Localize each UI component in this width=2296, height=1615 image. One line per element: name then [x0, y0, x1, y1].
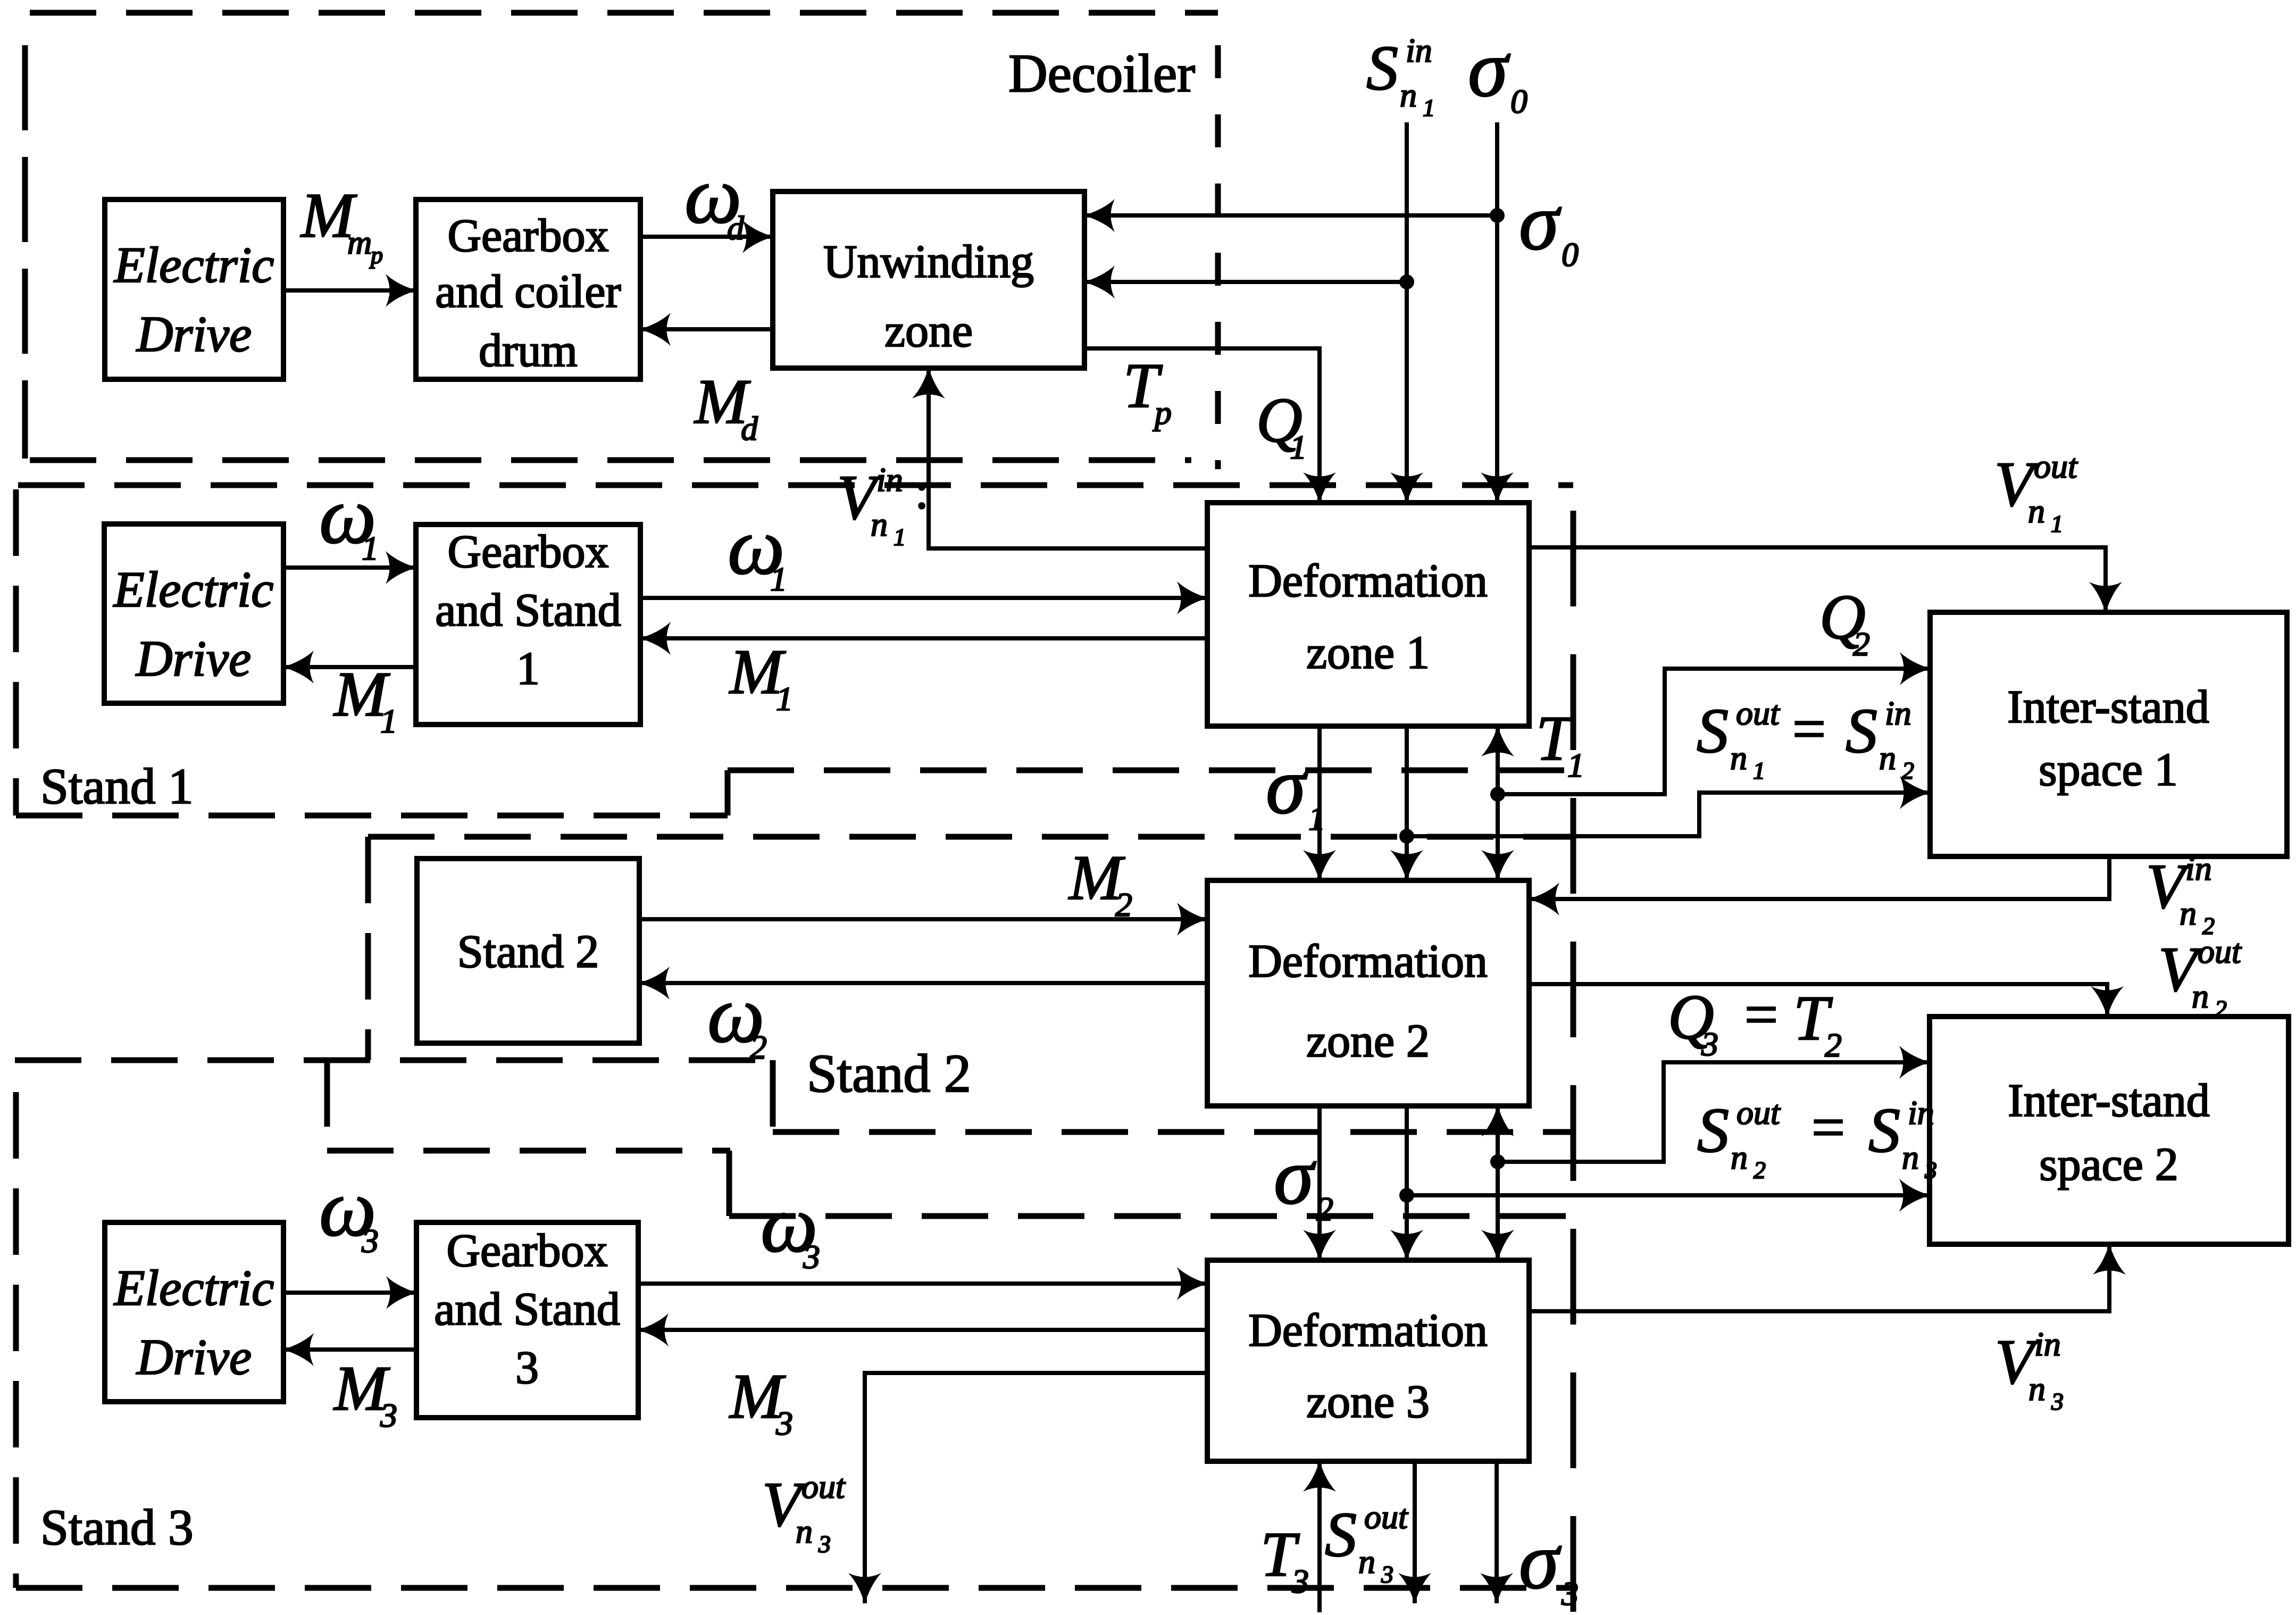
- svg-text:σ: σ: [1519, 1516, 1562, 1605]
- svg-text:1: 1: [894, 523, 906, 551]
- svg-text:3: 3: [1291, 1562, 1309, 1600]
- svg-text:and Stand: and Stand: [435, 585, 621, 636]
- svg-text:n: n: [2028, 492, 2045, 530]
- svg-text:out: out: [2198, 933, 2242, 970]
- svg-text:1: 1: [1290, 428, 1307, 466]
- svg-text:S: S: [1697, 1095, 1729, 1166]
- svg-text:zone 3: zone 3: [1306, 1376, 1430, 1428]
- svg-text:Stand 2: Stand 2: [457, 926, 599, 978]
- svg-text:in: in: [1885, 694, 1911, 732]
- svg-text:=: =: [1744, 982, 1778, 1048]
- svg-text:Stand 1: Stand 1: [40, 758, 194, 814]
- svg-text:Gearbox: Gearbox: [447, 1225, 608, 1277]
- svg-text:2: 2: [2215, 995, 2227, 1022]
- svg-text:d: d: [741, 410, 758, 447]
- svg-text:out: out: [801, 1468, 846, 1505]
- svg-text:out: out: [1736, 694, 1781, 732]
- svg-text:1: 1: [380, 702, 397, 740]
- svg-text:Stand 2: Stand 2: [807, 1044, 971, 1104]
- svg-text:in: in: [1908, 1094, 1934, 1131]
- svg-text:σ: σ: [1468, 24, 1510, 113]
- svg-text:Gearbox: Gearbox: [448, 210, 609, 262]
- svg-text:out: out: [1364, 1498, 1409, 1536]
- svg-text:out: out: [1736, 1094, 1781, 1131]
- svg-text:Drive: Drive: [136, 306, 252, 362]
- svg-text:2: 2: [1754, 1156, 1766, 1184]
- svg-text:0: 0: [1562, 236, 1579, 273]
- svg-text:Unwinding: Unwinding: [823, 236, 1034, 288]
- svg-text:Drive: Drive: [135, 630, 251, 687]
- svg-text:σ: σ: [1266, 741, 1308, 830]
- svg-text:1: 1: [1423, 94, 1435, 121]
- svg-text:n: n: [1400, 76, 1417, 114]
- svg-text:Inter-stand: Inter-stand: [2008, 1075, 2209, 1127]
- svg-text:σ: σ: [1274, 1131, 1316, 1221]
- svg-text:Drive: Drive: [136, 1329, 252, 1385]
- svg-text:and coiler: and coiler: [435, 266, 621, 318]
- svg-text:3: 3: [515, 1342, 539, 1394]
- svg-text:S: S: [1868, 1095, 1900, 1166]
- svg-text:n: n: [1902, 1138, 1919, 1176]
- svg-text:S: S: [1366, 32, 1398, 103]
- svg-text:Electric: Electric: [113, 1260, 274, 1316]
- svg-text:3: 3: [1924, 1156, 1937, 1184]
- svg-text:3: 3: [2051, 1388, 2064, 1415]
- svg-text:S: S: [1325, 1499, 1357, 1570]
- svg-text:2: 2: [1825, 1026, 1842, 1064]
- svg-text:in: in: [1406, 31, 1432, 69]
- svg-text:3: 3: [361, 1222, 379, 1260]
- svg-text:n: n: [796, 1512, 813, 1550]
- svg-text:Inter-stand: Inter-stand: [2007, 681, 2209, 733]
- svg-text:3: 3: [1701, 1025, 1718, 1063]
- svg-text:d: d: [727, 209, 745, 247]
- svg-text:p: p: [369, 242, 383, 269]
- svg-text:zone 1: zone 1: [1306, 627, 1430, 679]
- svg-text:1: 1: [516, 643, 540, 695]
- svg-text:Stand 3: Stand 3: [40, 1499, 194, 1555]
- svg-text:3: 3: [1381, 1561, 1393, 1588]
- svg-text:1: 1: [1753, 757, 1765, 784]
- svg-text:n: n: [1358, 1543, 1375, 1580]
- svg-text:in: in: [2185, 850, 2212, 887]
- svg-text:3: 3: [775, 1404, 793, 1442]
- svg-text:Deformation: Deformation: [1248, 936, 1488, 987]
- svg-text:Decoiler: Decoiler: [1008, 44, 1195, 104]
- svg-text:n: n: [871, 505, 888, 543]
- svg-text:2: 2: [1316, 1190, 1333, 1228]
- svg-text:n: n: [1730, 739, 1747, 777]
- svg-text:3: 3: [803, 1238, 820, 1276]
- svg-text:p: p: [1153, 394, 1172, 431]
- svg-text:1: 1: [1308, 800, 1325, 837]
- svg-text:m: m: [347, 223, 372, 261]
- svg-text:space 2: space 2: [2039, 1139, 2178, 1191]
- svg-text:2: 2: [1853, 625, 1870, 663]
- svg-text:drum: drum: [479, 325, 578, 377]
- svg-text:in: in: [2034, 1325, 2061, 1363]
- svg-text:Gearbox: Gearbox: [448, 526, 609, 578]
- svg-text:zone 2: zone 2: [1306, 1015, 1430, 1067]
- svg-text:1: 1: [1567, 746, 1584, 784]
- svg-text:Electric: Electric: [113, 561, 274, 618]
- svg-text:1: 1: [776, 680, 793, 718]
- svg-text:out: out: [2034, 447, 2078, 485]
- svg-text:and Stand: and Stand: [434, 1284, 620, 1335]
- svg-text:2: 2: [1902, 757, 1914, 784]
- svg-text:zone: zone: [884, 305, 973, 357]
- svg-text:=: =: [1792, 696, 1826, 762]
- svg-text:3: 3: [1561, 1575, 1579, 1612]
- svg-text:2: 2: [1115, 886, 1132, 923]
- svg-text:=: =: [1811, 1095, 1845, 1161]
- svg-text:Electric: Electric: [113, 237, 274, 293]
- svg-text:n: n: [1731, 1138, 1748, 1176]
- svg-text:3: 3: [818, 1530, 831, 1558]
- svg-text:S: S: [1846, 695, 1877, 766]
- svg-text:1: 1: [770, 560, 787, 598]
- svg-text:2: 2: [750, 1028, 767, 1066]
- svg-text:1: 1: [362, 529, 379, 567]
- svg-text:n: n: [1879, 739, 1896, 777]
- svg-text:S: S: [1697, 695, 1729, 766]
- svg-text::: :: [915, 463, 929, 519]
- svg-text:3: 3: [380, 1396, 397, 1434]
- svg-text:n: n: [2028, 1370, 2045, 1408]
- svg-text:1: 1: [2051, 510, 2063, 537]
- svg-text:n: n: [2192, 977, 2209, 1015]
- svg-text:in: in: [876, 461, 903, 498]
- svg-text:n: n: [2180, 894, 2197, 932]
- svg-text:0: 0: [1510, 82, 1527, 120]
- svg-text:Deformation: Deformation: [1248, 1305, 1488, 1356]
- svg-text:Deformation: Deformation: [1248, 555, 1488, 607]
- svg-text:space 1: space 1: [2039, 744, 2177, 796]
- svg-text:σ: σ: [1519, 177, 1562, 267]
